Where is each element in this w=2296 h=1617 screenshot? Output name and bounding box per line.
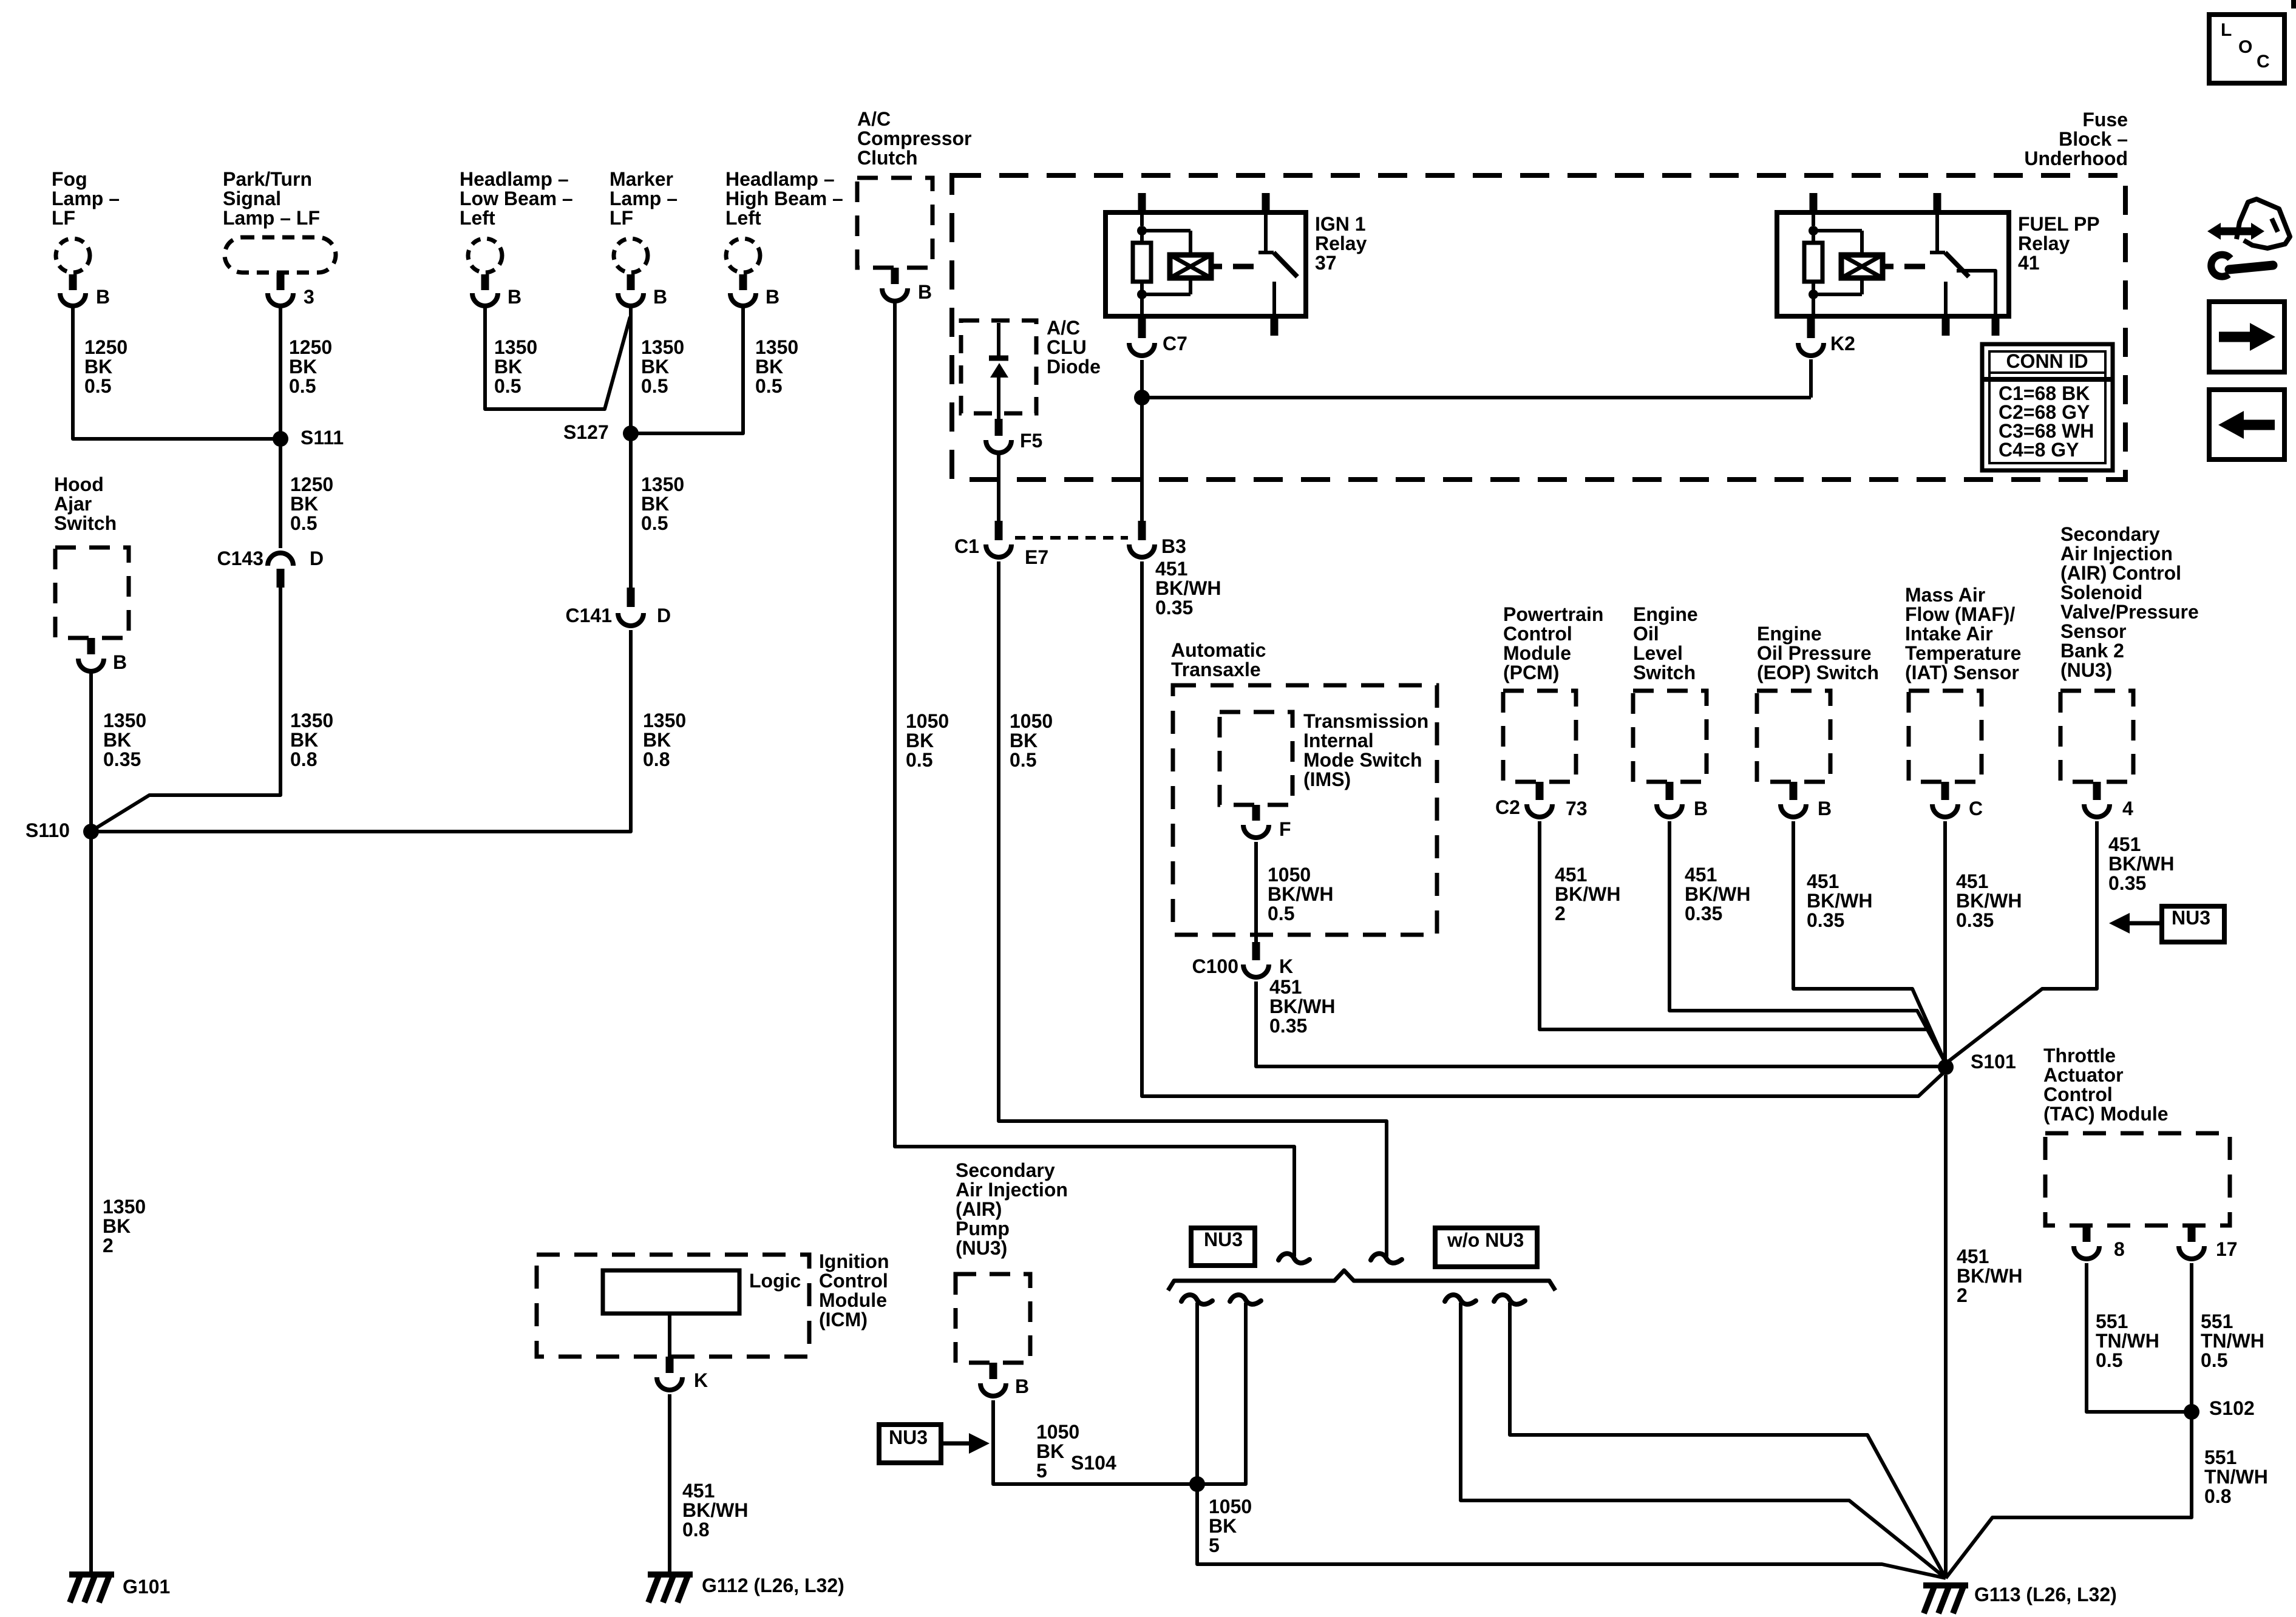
engine oil level switch <box>1633 603 1708 819</box>
svg-text:1350: 1350 <box>494 336 537 358</box>
svg-text:K: K <box>1279 955 1293 977</box>
inline connector upper left <box>1279 1253 1309 1263</box>
svg-text:Pump: Pump <box>956 1218 1010 1239</box>
svg-text:1350: 1350 <box>641 473 684 495</box>
svg-text:w/o NU3: w/o NU3 <box>1447 1229 1524 1251</box>
svg-text:High Beam –: High Beam – <box>725 188 843 209</box>
svg-text:451: 451 <box>1685 864 1717 886</box>
svg-text:NU3: NU3 <box>889 1426 928 1448</box>
wire 1350 BK 0.8 C141 to S110 <box>95 630 686 832</box>
connector B3 <box>1129 521 1186 557</box>
conn id table <box>1982 344 2113 470</box>
svg-text:F: F <box>1279 818 1291 840</box>
svg-text:B: B <box>508 286 521 308</box>
svg-text:Fog: Fog <box>52 168 87 190</box>
svg-text:S102: S102 <box>2209 1397 2255 1419</box>
svg-text:Mass Air: Mass Air <box>1905 584 1985 606</box>
svg-text:BK: BK <box>289 356 317 378</box>
svg-text:0.5: 0.5 <box>494 375 521 397</box>
svg-text:0.5: 0.5 <box>906 749 932 771</box>
svg-text:C: C <box>1969 798 1983 819</box>
svg-text:B: B <box>96 286 110 308</box>
svg-text:(PCM): (PCM) <box>1503 662 1559 683</box>
fuel pp relay switch output wire <box>1957 271 1995 336</box>
wire 1350 BK 2 S110 to G101 <box>91 836 146 1573</box>
svg-text:B: B <box>1015 1375 1029 1397</box>
wire 451 BK/WH 0.35 EOP switch to S101 <box>1793 821 1946 1063</box>
svg-text:B: B <box>653 286 667 308</box>
svg-text:8: 8 <box>2114 1238 2125 1260</box>
svg-text:2: 2 <box>103 1235 114 1256</box>
svg-text:(IAT) Sensor: (IAT) Sensor <box>1905 662 2019 683</box>
svg-text:0.5: 0.5 <box>2096 1349 2122 1371</box>
wire lower connector 1 to S104 <box>1195 1303 1199 1480</box>
svg-text:3: 3 <box>304 286 314 308</box>
option brace <box>1168 1270 1555 1290</box>
svg-text:G101: G101 <box>123 1576 170 1598</box>
transmission internal mode switch (IMS) <box>1220 710 1428 805</box>
svg-text:Lamp – LF: Lamp – LF <box>223 207 320 229</box>
svg-text:Signal: Signal <box>223 188 281 209</box>
svg-text:Flow (MAF)/: Flow (MAF)/ <box>1905 603 2015 625</box>
svg-text:451: 451 <box>1269 976 1302 998</box>
connector F (IMS) <box>1243 805 1291 840</box>
secondary air injection pump <box>956 1159 1068 1397</box>
svg-text:S104: S104 <box>1071 1452 1116 1474</box>
svg-text:C141: C141 <box>566 605 613 626</box>
svg-text:0.5: 0.5 <box>641 512 668 534</box>
svg-text:0.35: 0.35 <box>1155 597 1193 619</box>
svg-text:37: 37 <box>1315 252 1337 274</box>
svg-text:D: D <box>310 547 324 569</box>
svg-text:FUEL PP: FUEL PP <box>2018 213 2100 235</box>
svg-text:551: 551 <box>2096 1310 2128 1332</box>
svg-text:B3: B3 <box>1161 535 1186 557</box>
svg-text:1350: 1350 <box>290 710 333 731</box>
connector K2 <box>1798 319 1855 356</box>
svg-text:0.8: 0.8 <box>290 748 317 770</box>
fuse block - underhood box <box>952 109 2128 480</box>
svg-text:BK: BK <box>84 356 112 378</box>
svg-text:BK/WH: BK/WH <box>1956 890 2022 912</box>
svg-text:1050: 1050 <box>1209 1496 1252 1517</box>
svg-text:Solenoid: Solenoid <box>2060 581 2142 603</box>
svg-text:5: 5 <box>1036 1460 1047 1482</box>
svg-text:BK/WH: BK/WH <box>2108 853 2174 875</box>
svg-text:Headlamp –: Headlamp – <box>460 168 569 190</box>
svg-text:BK: BK <box>103 1215 131 1237</box>
svg-text:0.5: 0.5 <box>290 512 317 534</box>
headlamp high beam left <box>725 168 843 308</box>
svg-text:0.8: 0.8 <box>682 1519 709 1541</box>
svg-text:S127: S127 <box>563 421 609 443</box>
svg-text:Module: Module <box>1503 642 1571 664</box>
svg-text:1250: 1250 <box>84 336 127 358</box>
svg-text:Diode: Diode <box>1047 356 1101 378</box>
svg-text:Internal: Internal <box>1303 730 1374 751</box>
svg-text:LF: LF <box>610 207 633 229</box>
svg-text:Air Injection: Air Injection <box>2060 543 2173 564</box>
svg-text:(TAC) Module: (TAC) Module <box>2043 1103 2169 1125</box>
wire 1350 BK 0.5 low beam to marker lamp wire <box>485 305 630 409</box>
svg-text:1250: 1250 <box>290 473 333 495</box>
svg-text:451: 451 <box>1555 864 1587 886</box>
svg-text:BK/WH: BK/WH <box>682 1499 748 1521</box>
svg-text:Headlamp –: Headlamp – <box>725 168 835 190</box>
svg-text:Fuse: Fuse <box>2082 109 2128 131</box>
connector C7 <box>1129 319 1187 356</box>
svg-text:Transmission: Transmission <box>1303 710 1428 732</box>
wire 451 BK/WH 0.35 oil level switch to S101 <box>1669 821 1946 1063</box>
relay FUEL PP 41 <box>1777 193 2100 336</box>
wire 1250 BK 0.5 park lamp pin 3 to S111 <box>280 305 332 435</box>
svg-text:Clutch: Clutch <box>857 147 918 169</box>
svg-text:K2: K2 <box>1830 333 1855 354</box>
svg-text:451: 451 <box>1807 870 1839 892</box>
wire lower connector 3 to G113 <box>1461 1303 1946 1578</box>
svg-text:BK: BK <box>290 493 318 515</box>
node S101 <box>1938 1051 2016 1075</box>
svg-text:C: C <box>2257 52 2270 72</box>
svg-text:Secondary: Secondary <box>956 1159 1055 1181</box>
connector C141 pin D <box>566 588 671 626</box>
svg-text:BK/WH: BK/WH <box>1555 883 1620 905</box>
svg-text:0.35: 0.35 <box>2108 872 2146 894</box>
ground G113 <box>1923 1584 2117 1613</box>
powertrain control module (PCM) <box>1495 603 1603 819</box>
svg-text:LF: LF <box>52 207 75 229</box>
svg-text:B: B <box>1694 798 1708 819</box>
connector F5 <box>986 419 1042 453</box>
svg-text:0.5: 0.5 <box>289 375 316 397</box>
svg-text:5: 5 <box>1209 1534 1220 1556</box>
svg-text:(AIR) Control: (AIR) Control <box>2060 562 2181 584</box>
park/turn signal lamp LF <box>223 168 336 308</box>
svg-text:Underhood: Underhood <box>2024 147 2128 169</box>
svg-text:0.35: 0.35 <box>1269 1015 1307 1037</box>
svg-text:Ajar: Ajar <box>54 493 92 515</box>
wire 1350 BK 0.5 S127 to C141 <box>631 438 684 588</box>
wire 551 TN/WH 0.5 TAC pin 17 to S102 <box>2192 1263 2264 1407</box>
svg-text:451: 451 <box>1155 558 1187 580</box>
svg-text:BK/WH: BK/WH <box>1807 890 1872 912</box>
page edge mark <box>2291 0 2296 8</box>
svg-text:1050: 1050 <box>1010 710 1053 732</box>
hood ajar switch <box>54 473 129 673</box>
svg-text:S101: S101 <box>1971 1051 2016 1073</box>
inline connector lower 2 <box>1230 1295 1261 1304</box>
wire 1350 BK 0.5 high beam to S127 <box>635 305 798 433</box>
wire 1050 BK 5 S104 to G113 <box>1197 1488 1946 1578</box>
wire 1350 BK 0.35 hood ajar switch to S110 <box>91 671 146 827</box>
svg-text:TN/WH: TN/WH <box>2204 1466 2268 1488</box>
svg-text:BK: BK <box>1010 730 1038 751</box>
svg-text:1050: 1050 <box>906 710 949 732</box>
svg-text:Powertrain: Powertrain <box>1503 603 1603 625</box>
svg-text:0.5: 0.5 <box>1268 903 1294 924</box>
svg-text:73: 73 <box>1566 798 1588 819</box>
connector C143 pin D <box>217 547 324 588</box>
wire 451 BK/WH 0.35 MAF/IAT to S101 <box>1945 821 2022 1061</box>
svg-text:BK/WH: BK/WH <box>1268 883 1333 905</box>
service icon hood with wrench <box>2207 199 2290 277</box>
svg-text:Oil: Oil <box>1633 623 1659 645</box>
wire 551 TN/WH 0.5 TAC pin 8 to S102 <box>2087 1263 2187 1412</box>
svg-text:1050: 1050 <box>1036 1421 1079 1443</box>
svg-text:Switch: Switch <box>54 512 117 534</box>
svg-text:0.5: 0.5 <box>1010 749 1036 771</box>
svg-text:Temperature: Temperature <box>1905 642 2021 664</box>
wire 551 TN/WH 0.8 S102 to G113 <box>1946 1416 2268 1578</box>
svg-text:451: 451 <box>2108 833 2141 855</box>
svg-text:B: B <box>918 281 932 303</box>
wire 1050 BK 0.5 a/c clutch to harness connector <box>895 300 1294 1256</box>
svg-text:Intake Air: Intake Air <box>1905 623 1993 645</box>
svg-text:BK: BK <box>1036 1440 1064 1462</box>
svg-text:1350: 1350 <box>103 1196 146 1218</box>
svg-text:BK/WH: BK/WH <box>1685 883 1750 905</box>
ignition control module (ICM) <box>537 1250 889 1357</box>
svg-text:0.8: 0.8 <box>643 748 670 770</box>
svg-text:NU3: NU3 <box>1204 1229 1243 1250</box>
svg-text:1250: 1250 <box>289 336 332 358</box>
NU3 tag pointing at AIR solenoid wire <box>2109 906 2224 942</box>
wire 1250 BK 0.5 S111 to C143 <box>280 443 333 548</box>
svg-text:BK/WH: BK/WH <box>1269 995 1335 1017</box>
svg-text:0.5: 0.5 <box>755 375 782 397</box>
svg-text:Air Injection: Air Injection <box>956 1179 1068 1201</box>
inline connector lower 4 <box>1494 1295 1525 1304</box>
svg-text:Low Beam –: Low Beam – <box>460 188 573 209</box>
svg-text:0.5: 0.5 <box>2201 1349 2227 1371</box>
svg-text:C1: C1 <box>954 535 979 557</box>
svg-text:BK/WH: BK/WH <box>1155 577 1221 599</box>
svg-text:0.8: 0.8 <box>2204 1485 2231 1507</box>
svg-text:TN/WH: TN/WH <box>2201 1330 2264 1352</box>
svg-text:BK: BK <box>641 356 669 378</box>
svg-text:(AIR): (AIR) <box>956 1198 1002 1220</box>
svg-text:E7: E7 <box>1025 546 1048 568</box>
svg-text:BK: BK <box>906 730 934 751</box>
svg-text:Mode Switch: Mode Switch <box>1303 749 1422 771</box>
svg-text:551: 551 <box>2204 1446 2237 1468</box>
wire 451 BK/WH 0.8 ICM to G112 <box>670 1394 748 1573</box>
svg-text:C7: C7 <box>1163 333 1187 354</box>
svg-text:G112 (L26, L32): G112 (L26, L32) <box>702 1575 844 1596</box>
connector C100 pin K <box>1192 942 1294 977</box>
svg-text:BK: BK <box>641 493 669 515</box>
prev-page arrow box <box>2209 390 2284 459</box>
svg-text:BK/WH: BK/WH <box>1957 1265 2022 1287</box>
svg-text:C2: C2 <box>1495 796 1520 818</box>
wire 1050 BK 0.5 C1/E7 to harness connector <box>999 561 1387 1256</box>
svg-text:BK: BK <box>643 729 671 751</box>
wire 1250 BK 0.5 fog lamp pin B to S111 <box>73 305 276 439</box>
svg-text:0.5: 0.5 <box>84 375 111 397</box>
inline connector lower 3 <box>1445 1295 1476 1304</box>
wire 451 BK/WH 2 S101 to G113 <box>1946 1075 2022 1578</box>
LOC legend box <box>2209 15 2284 83</box>
svg-text:S111: S111 <box>301 427 344 449</box>
svg-text:Bank 2: Bank 2 <box>2060 640 2124 662</box>
svg-text:B: B <box>1818 798 1832 819</box>
svg-text:551: 551 <box>2201 1310 2233 1332</box>
svg-text:Oil Pressure: Oil Pressure <box>1757 642 1872 664</box>
node S127 <box>563 421 639 443</box>
connector K (ICM) <box>657 1314 708 1391</box>
svg-text:4: 4 <box>2122 798 2133 819</box>
NU3 tag pointing at AIR pump wire <box>879 1425 990 1463</box>
wire lower connector 4 to G113 <box>1510 1303 1946 1578</box>
svg-text:IGN 1: IGN 1 <box>1315 213 1366 235</box>
engine oil pressure (EOP) switch <box>1757 623 1879 819</box>
svg-text:CLU: CLU <box>1047 336 1087 358</box>
marker lamp LF <box>610 168 678 308</box>
svg-text:NU3: NU3 <box>2172 907 2210 929</box>
wire F5 to C1 <box>997 452 1000 521</box>
svg-text:(EOP) Switch: (EOP) Switch <box>1757 662 1879 683</box>
svg-text:Relay: Relay <box>1315 232 1367 254</box>
svg-text:Relay: Relay <box>2018 232 2070 254</box>
fog lamp LF <box>52 168 120 308</box>
svg-text:Sensor: Sensor <box>2060 620 2126 642</box>
wire 1050 BK 5 AIR pump to S104 <box>993 1400 1191 1484</box>
svg-text:1350: 1350 <box>755 336 798 358</box>
node S111 <box>273 427 344 449</box>
ground G101 <box>69 1575 170 1602</box>
svg-text:1050: 1050 <box>1268 864 1311 886</box>
wire C7 to B3 with K2 feed <box>1134 359 1811 521</box>
svg-text:Hood: Hood <box>54 473 104 495</box>
svg-text:Control: Control <box>1503 623 1572 645</box>
svg-text:Switch: Switch <box>1633 662 1696 683</box>
svg-text:Left: Left <box>725 207 761 229</box>
ground G112 <box>648 1575 844 1602</box>
a/c compressor clutch <box>857 108 972 303</box>
svg-text:Valve/Pressure: Valve/Pressure <box>2060 601 2199 623</box>
svg-text:1350: 1350 <box>641 336 684 358</box>
throttle actuator control (TAC) module <box>2043 1045 2238 1260</box>
w/o NU3 option tag <box>1435 1228 1537 1267</box>
svg-text:Left: Left <box>460 207 495 229</box>
secondary air injection control solenoid bank 2 <box>2060 523 2199 819</box>
node S104 <box>1071 1452 1205 1492</box>
svg-text:(NU3): (NU3) <box>2060 659 2112 681</box>
svg-text:L: L <box>2221 20 2232 40</box>
svg-text:Lamp –: Lamp – <box>52 188 120 209</box>
NU3 option tag <box>1191 1228 1255 1266</box>
svg-text:(NU3): (NU3) <box>956 1237 1007 1259</box>
wire 451 BK/WH 2 PCM to S101 <box>1540 821 1946 1063</box>
svg-text:(ICM): (ICM) <box>819 1309 868 1331</box>
svg-text:Block –: Block – <box>2059 128 2128 150</box>
svg-text:B: B <box>766 286 779 308</box>
a/c clu diode <box>961 317 1101 419</box>
relay IGN 1 37 <box>1106 193 1367 336</box>
inline connector upper right <box>1371 1253 1402 1263</box>
svg-text:1350: 1350 <box>103 710 146 731</box>
svg-text:0.35: 0.35 <box>1956 909 1994 931</box>
svg-text:Compressor: Compressor <box>857 127 972 149</box>
wire 451 BK/WH 0.35 B3 to S101 <box>1142 558 1946 1096</box>
svg-text:Control: Control <box>2043 1083 2113 1105</box>
inline connector lower 1 <box>1181 1295 1212 1304</box>
svg-text:Level: Level <box>1633 642 1683 664</box>
svg-text:D: D <box>657 605 671 626</box>
svg-text:C4=8 GY: C4=8 GY <box>1999 439 2079 461</box>
automatic transaxle box <box>1171 639 1437 935</box>
svg-text:Transaxle: Transaxle <box>1171 659 1261 680</box>
svg-text:Secondary: Secondary <box>2060 523 2160 545</box>
svg-text:Automatic: Automatic <box>1171 639 1266 661</box>
svg-text:C100: C100 <box>1192 955 1239 977</box>
svg-text:BK: BK <box>103 729 131 751</box>
svg-text:2: 2 <box>1555 903 1566 924</box>
wire 1050 BK/WH 0.5 IMS to C100 <box>1256 842 1333 942</box>
connector C1 pin E7 <box>954 521 1128 568</box>
mass air flow / IAT sensor <box>1905 584 2021 819</box>
node S110 <box>25 819 99 841</box>
svg-text:B: B <box>113 651 127 673</box>
svg-text:(IMS): (IMS) <box>1303 768 1351 790</box>
svg-text:Park/Turn: Park/Turn <box>223 168 312 190</box>
wire 451 BK/WH 0.35 C100 to S101 <box>1256 976 1940 1066</box>
svg-text:BK: BK <box>290 729 318 751</box>
svg-text:Engine: Engine <box>1757 623 1822 645</box>
svg-text:0.5: 0.5 <box>641 375 668 397</box>
svg-text:41: 41 <box>2018 252 2040 274</box>
svg-text:A/C: A/C <box>1047 317 1080 339</box>
svg-text:Actuator: Actuator <box>2043 1064 2124 1086</box>
node S102 <box>2184 1397 2255 1420</box>
svg-text:2: 2 <box>1957 1284 1968 1306</box>
svg-text:1350: 1350 <box>643 710 686 731</box>
svg-text:Throttle: Throttle <box>2043 1045 2116 1066</box>
svg-text:A/C: A/C <box>857 108 891 130</box>
headlamp low beam left <box>460 168 573 308</box>
wire 1350 BK 0.5 marker lamp to S127 <box>631 305 684 430</box>
svg-text:C143: C143 <box>217 547 264 569</box>
svg-text:451: 451 <box>1956 870 1988 892</box>
wire 1350 BK 0.8 C143 to S110 <box>92 588 333 830</box>
svg-text:F5: F5 <box>1020 430 1042 452</box>
svg-text:G113 (L26, L32): G113 (L26, L32) <box>1974 1584 2117 1605</box>
svg-text:BK: BK <box>494 356 522 378</box>
svg-text:TN/WH: TN/WH <box>2096 1330 2159 1352</box>
svg-text:BK: BK <box>1209 1515 1237 1537</box>
svg-text:17: 17 <box>2216 1238 2238 1260</box>
svg-text:0.35: 0.35 <box>1685 903 1722 924</box>
svg-text:Ignition: Ignition <box>819 1250 889 1272</box>
svg-text:Module: Module <box>819 1289 887 1311</box>
svg-text:0.35: 0.35 <box>1807 909 1844 931</box>
svg-text:K: K <box>694 1369 708 1391</box>
svg-text:BK: BK <box>755 356 783 378</box>
svg-text:CONN ID: CONN ID <box>2006 350 2088 372</box>
svg-text:S110: S110 <box>25 819 70 841</box>
next-page arrow box <box>2209 302 2284 372</box>
svg-text:Lamp –: Lamp – <box>610 188 678 209</box>
svg-text:Control: Control <box>819 1270 888 1292</box>
svg-text:0.35: 0.35 <box>103 748 141 770</box>
svg-text:451: 451 <box>682 1480 715 1502</box>
svg-text:451: 451 <box>1957 1246 1989 1267</box>
svg-text:O: O <box>2238 37 2252 57</box>
svg-text:Engine: Engine <box>1633 603 1698 625</box>
svg-text:Marker: Marker <box>610 168 673 190</box>
svg-text:Logic: Logic <box>749 1270 801 1292</box>
wire 451 BK/WH 0.35 AIR solenoid to S101 <box>1946 821 2174 1063</box>
